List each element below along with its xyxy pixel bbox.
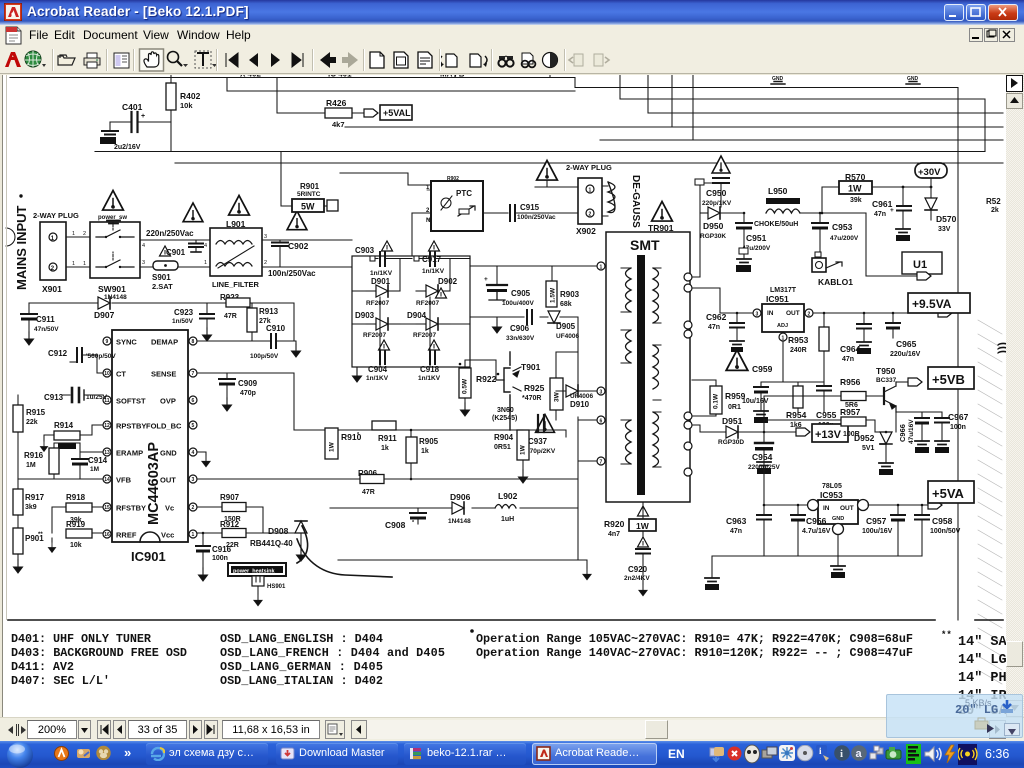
svg-text:LM317T: LM317T [770,287,797,294]
diode D905 [548,311,560,323]
svg-text:'560p/50V: '560p/50V [86,353,116,360]
svg-text:1: 1 [600,265,603,271]
svg-text:D906: D906 [450,492,471,502]
wire top rail [29,303,294,341]
svg-text:a: a [856,748,863,760]
svg-text:C906: C906 [510,324,530,333]
svg-text:C916: C916 [212,545,232,554]
svg-text:D908: D908 [268,526,289,536]
svg-text:240R: 240R [790,347,807,354]
svg-text:220u/16V: 220u/16V [890,351,921,358]
svg-text:R916: R916 [24,451,44,460]
svg-text:LINE_FILTER: LINE_FILTER [212,280,260,289]
svg-text:OSD_LANG_GERMAN : D405: OSD_LANG_GERMAN : D405 [220,660,383,674]
svg-text:OUT: OUT [786,310,800,317]
svg-text:KABLO1: KABLO1 [818,277,853,287]
node +30V [915,163,947,178]
svg-text:100u/400V: 100u/400V [502,300,534,307]
svg-text:4.7u/16V: 4.7u/16V [802,528,831,535]
svg-text:C958: C958 [932,516,953,526]
IC901 pins right [189,337,197,345]
svg-text:14" LG: 14" LG [958,653,1006,668]
wire 5VA input [764,462,812,505]
svg-text:C953: C953 [832,222,853,232]
warning power_sw [103,191,124,211]
svg-text:RGP30K: RGP30K [700,233,726,240]
wire filter right top [262,239,352,241]
svg-text:PTC: PTC [456,189,472,198]
pen stroke annotation [297,526,308,563]
svg-text:SENSE: SENSE [151,370,176,379]
svg-text:Vc: Vc [165,504,174,513]
svg-text:C904: C904 [368,365,388,374]
svg-text:*: * [412,520,415,526]
svg-text:470p/2KV: 470p/2KV [526,448,556,455]
svg-text:1M: 1M [90,466,99,473]
transformer SMT box [606,232,690,502]
svg-text:2u2/16V: 2u2/16V [114,144,141,151]
wire mains pin1 [66,236,90,238]
svg-text:OSD_LANG_ITALIAN : D402: OSD_LANG_ITALIAN : D402 [220,674,383,688]
svg-text:1uH: 1uH [501,516,514,523]
svg-text:33V: 33V [938,226,951,233]
capacitor C909 [226,373,228,378]
wire bus L7 [95,151,985,153]
svg-text:14: 14 [104,477,110,483]
warning near C902 [287,211,307,230]
svg-text:+: + [141,113,145,120]
svg-text:1n/1KV: 1n/1KV [366,375,389,382]
svg-text:47u/200V: 47u/200V [830,235,859,242]
transformer pin 3 [597,387,605,395]
svg-text:R917: R917 [25,493,45,502]
svg-text:UF4006: UF4006 [570,393,594,400]
svg-text:1W: 1W [848,184,862,194]
resistor R954 [793,386,803,408]
svg-text:C913: C913 [44,393,64,402]
svg-text:+30V: +30V [918,167,941,178]
svg-text:OSD_LANG_ENGLISH : D404: OSD_LANG_ENGLISH : D404 [220,632,383,646]
svg-text:(((: ((( [997,342,1006,354]
svg-text:2-WAY PLUG: 2-WAY PLUG [33,211,79,220]
transformer core [637,255,645,495]
wire sw-filter bottom [140,266,210,268]
capacitor C956 [797,505,799,514]
svg-text:5: 5 [192,423,195,429]
svg-text:SW901: SW901 [98,284,126,294]
svg-text:D951: D951 [722,416,743,426]
svg-text:D904: D904 [407,311,427,320]
IC901 pins left [103,337,111,345]
wire Vc net [197,507,263,533]
ground bridge [356,367,358,369]
svg-text:47n/50V: 47n/50V [34,326,59,333]
wire 5VA ground rail [764,535,922,556]
capacitor C953 [819,212,822,215]
svg-text:1N4148: 1N4148 [104,294,127,301]
svg-text:IN: IN [823,505,830,512]
svg-text:FOLD_BC: FOLD_BC [146,422,182,431]
svg-text:L902: L902 [498,491,518,501]
capacitor C958 [921,505,923,514]
svg-text:39k: 39k [850,197,862,204]
connector KABLO1 [815,252,821,257]
wire 13V to 5VB branch [764,396,841,432]
svg-text:10u/16V: 10u/16V [742,398,769,405]
svg-text:GND: GND [907,76,919,82]
capacitor C906 [526,310,528,324]
svg-text:100n: 100n [212,555,228,562]
svg-text:R918: R918 [66,493,86,502]
warning near C901 [183,203,203,222]
transformer secondary winding [653,268,659,323]
svg-text:GND: GND [772,76,784,82]
ground C951 [739,248,748,254]
svg-text:C920: C920 [628,565,648,574]
svg-text:C917: C917 [422,255,442,264]
svg-text:1: 1 [192,532,195,538]
svg-text:D903: D903 [355,311,375,320]
svg-text:0R1: 0R1 [728,404,741,411]
resistor R911 [372,421,396,430]
svg-text:D902: D902 [438,277,458,286]
svg-text:(K2545): (K2545) [492,415,517,422]
svg-text:1.5W: 1.5W [550,287,557,303]
wire bus L8 [175,162,1003,164]
node +9.5VA [908,293,970,313]
svg-text:R920: R920 [604,519,625,529]
svg-text:100n/50V: 100n/50V [930,528,961,535]
wire rail to transformer [470,265,597,267]
svg-text:8: 8 [192,339,195,345]
ground sym on bus at 778 [771,82,785,85]
svg-text:OUT: OUT [840,505,854,512]
svg-text:R954: R954 [786,410,807,420]
wire Vcc net [197,532,296,534]
vertical scrollbar [1006,75,1024,717]
svg-text:CHOKE/50uH: CHOKE/50uH [754,221,798,228]
svg-text:D910: D910 [570,400,590,409]
svg-text:2-WAY PLUG: 2-WAY PLUG [566,163,612,172]
document pane left border [0,75,3,717]
svg-text:RF2007: RF2007 [416,300,440,307]
svg-text:3: 3 [192,477,195,483]
capacitor C904 [379,340,390,350]
warning R959 [726,350,748,370]
svg-text:RPSTBY: RPSTBY [116,422,146,431]
svg-text:X 402: X 402 [240,75,261,79]
svg-text:DEMAP: DEMAP [151,338,178,347]
svg-text:OVP: OVP [160,397,176,406]
svg-text:12: 12 [104,423,110,429]
fuse S901 [153,261,178,270]
bridge rectifier box [352,256,470,367]
svg-text:R919: R919 [66,520,86,529]
svg-text:C962: C962 [706,312,727,322]
svg-text:D905: D905 [556,322,576,331]
svg-text:47R: 47R [224,313,237,320]
transformer primary winding [626,268,632,312]
svg-text:R922: R922 [476,374,497,384]
svg-text:1k: 1k [421,448,429,455]
svg-text:3k9: 3k9 [25,504,37,511]
node +5VA [928,481,974,503]
ground C401 [109,122,111,130]
wire primary return [338,417,597,568]
arc page edge [6,228,15,246]
svg-text:14" SAN: 14" SAN [958,635,1006,650]
svg-text:C963: C963 [726,516,747,526]
wire sw-filter top [140,239,210,241]
svg-text:Operation Range 140VAC~270VAC:: Operation Range 140VAC~270VAC: R910=120K… [476,646,913,660]
wire low rail [330,507,578,509]
svg-text:D407: SEC L/L': D407: SEC L/L' [11,674,110,688]
wire ADJ net [761,341,824,386]
transformer pin 7 [597,457,605,465]
wire PTC pin2 to C915 [412,212,508,214]
svg-text:100n: 100n [950,424,966,431]
wire aux winding [692,183,713,277]
ground C961 [896,229,910,233]
warning near X902 [537,161,558,181]
svg-text:C959: C959 [752,364,773,374]
svg-text:47n: 47n [730,528,742,535]
svg-text:33n/630V: 33n/630V [506,335,535,342]
wire mains pin2 [66,266,90,268]
svg-text:3N60: 3N60 [497,407,514,414]
svg-text:10k: 10k [180,101,193,110]
svg-text:C910: C910 [266,324,286,333]
svg-text:47n: 47n [842,356,854,363]
resistor R922 [459,368,471,398]
svg-text:C966: C966 [898,424,907,442]
svg-text:D403: BACKGROUND FREE OSD: D403: BACKGROUND FREE OSD [11,646,187,660]
svg-text:1: 1 [589,188,592,194]
svg-text:C967: C967 [948,412,969,422]
svg-text:1: 1 [72,231,75,237]
svg-text:22k: 22k [26,419,38,426]
svg-text:47R: 47R [362,489,375,496]
svg-text:470p: 470p [240,390,256,397]
capacitor C964 [863,313,865,323]
svg-text:SMT: SMT [630,237,660,253]
svg-text:2: 2 [808,312,811,318]
capacitor C915 [509,205,511,221]
svg-text:RREF: RREF [116,531,137,540]
svg-text:C923: C923 [174,308,194,317]
svg-text:100p/50V: 100p/50V [250,353,279,360]
capacitor C955 [817,385,831,387]
switch SW901 [90,222,140,278]
wire bridge internal [352,259,470,368]
svg-text:Operation Range 105VAC~270VAC:: Operation Range 105VAC~270VAC: R910= 47K… [476,632,913,646]
svg-text:Vcc: Vcc [161,531,174,540]
svg-text:4: 4 [204,243,207,249]
svg-text:ERAMP: ERAMP [116,449,143,458]
diode D907 [98,297,110,309]
capacitor C961 [902,187,904,206]
wire DEMAP net [197,340,270,342]
svg-text:D950: D950 [703,221,724,231]
ground C911 [25,332,34,345]
degauss coil [602,186,608,216]
schematic bottom border [8,619,1003,621]
capacitor C916 [202,533,204,545]
svg-text:0.5W: 0.5W [462,378,469,394]
svg-text:R959: R959 [725,391,746,401]
svg-text:R904: R904 [494,433,514,442]
svg-text:1M: 1M [26,462,36,469]
svg-text:T950: T950 [876,366,896,376]
resistor R905 [406,437,417,463]
capacitor C951 [743,212,746,215]
svg-text:R905: R905 [419,437,439,446]
wire snubber top [556,352,597,391]
svg-text:R915: R915 [26,408,46,417]
IC901 MC44603AP [112,330,188,542]
wire SENSE net [197,373,294,430]
svg-text:C908: C908 [385,520,406,530]
svg-text:2: 2 [192,505,195,511]
wire choke out [800,187,866,213]
wire bus L4 [648,75,1003,113]
svg-text:+5VAL: +5VAL [383,108,411,118]
warning near C937 [536,415,555,433]
ground R904 [522,460,524,470]
svg-text:0.1W: 0.1W [713,393,720,409]
svg-text:14" PHI: 14" PHI [958,671,1006,686]
capacitor C918 [429,340,440,350]
svg-text:3: 3 [264,234,267,240]
svg-text:R426: R426 [326,98,347,108]
svg-text:C401: C401 [122,102,143,112]
resistor R426 [277,78,364,114]
diode D910 [566,385,578,397]
svg-text:C954: C954 [752,452,773,462]
line filter L901 [210,228,262,276]
svg-text:68k: 68k [560,301,572,308]
svg-text:RFSTBY: RFSTBY [116,504,146,513]
capacitor C902 [279,240,281,267]
warning near C905 [436,288,447,298]
wire snubber row [470,317,578,352]
svg-text:C950: C950 [706,188,727,198]
connector X902 [578,178,602,224]
svg-text:R52: R52 [986,197,1001,206]
svg-text:C957: C957 [866,516,887,526]
diode D950 [700,212,708,214]
svg-text:RF2007: RF2007 [366,300,390,307]
wire GND pin [197,452,206,455]
capacitor C950 [713,177,729,179]
svg-text:R903: R903 [560,290,580,299]
capacitor C965 [892,313,894,322]
svg-text:L901: L901 [226,219,246,229]
svg-text:L950: L950 [768,186,788,196]
svg-text:power_heatsink: power_heatsink [233,569,276,575]
svg-text:6: 6 [192,398,195,404]
svg-text:R953: R953 [788,335,809,345]
svg-text:220p/1KV: 220p/1KV [702,200,732,207]
svg-text:*470R: *470R [522,395,541,402]
svg-text:R956: R956 [840,377,861,387]
svg-text:0R51: 0R51 [494,444,511,451]
svg-text:IC 401: IC 401 [328,75,352,79]
warning C950 [712,156,730,173]
svg-text:IC953: IC953 [820,490,843,500]
svg-text:R911: R911 [378,434,397,443]
wire 9.5VA rail [813,312,938,314]
svg-text:2.SAT: 2.SAT [152,282,173,291]
svg-text:SYNC: SYNC [116,338,137,347]
svg-text:S901: S901 [152,273,171,282]
svg-text:+5VA: +5VA [932,486,965,501]
svg-text:47u/16V: 47u/16V [908,419,915,444]
svg-text:BC337: BC337 [876,377,897,384]
svg-text:4: 4 [192,450,195,456]
svg-text:R914: R914 [54,421,74,430]
wire gate net [294,430,566,437]
svg-text:D952: D952 [854,433,875,443]
wire bus L6 [600,75,1003,140]
node +5VB [908,378,922,386]
svg-text:1: 1 [72,261,75,267]
svg-text:47n: 47n [874,211,886,218]
svg-text:R912: R912 [220,520,240,529]
svg-text:100n/250Vac: 100n/250Vac [268,269,316,278]
potentiometer P901 [13,528,23,554]
warning TR901 [652,202,673,222]
svg-text:7: 7 [192,371,195,377]
svg-text:2n2/4KV: 2n2/4KV [624,575,650,582]
svg-text:+13V: +13V [815,429,842,441]
svg-text:1n/1KV: 1n/1KV [370,270,393,277]
svg-text:1n/1KV: 1n/1KV [422,268,445,275]
svg-text:9: 9 [106,339,109,345]
svg-text:2: 2 [264,260,267,266]
download overlay [886,694,1023,738]
svg-text:+5VB: +5VB [932,372,965,387]
svg-text:100n/250Vac: 100n/250Vac [517,214,556,221]
svg-text:C903: C903 [355,246,375,255]
resistor R913 [247,308,257,332]
svg-text:R902: R902 [447,176,459,182]
svg-text:R913: R913 [259,307,279,316]
svg-text:C905: C905 [511,289,531,298]
svg-text:C901: C901 [166,248,186,257]
svg-text:IC951: IC951 [766,294,789,304]
svg-text:X901: X901 [42,284,62,294]
block U1 [902,252,942,274]
wire IC951 in [692,277,753,313]
svg-text:R901: R901 [300,182,320,191]
svg-text:C912: C912 [48,349,68,358]
wire OUT net [197,478,578,480]
svg-text:10: 10 [104,371,110,377]
ground sym on bus at 913 [906,82,920,85]
svg-text:1: 1 [204,260,207,266]
svg-text:1W: 1W [636,521,650,531]
svg-text:**: ** [38,532,43,538]
svg-text:3: 3 [142,260,145,266]
svg-text:D401: UHF ONLY TUNER: D401: UHF ONLY TUNER [11,632,152,646]
capacitor C905 [496,266,498,284]
node +5VAL [364,109,378,117]
svg-text:TR901: TR901 [648,223,674,233]
svg-text:R402: R402 [180,91,201,101]
svg-text:1W: 1W [329,441,336,452]
svg-text:IC901: IC901 [131,549,166,564]
